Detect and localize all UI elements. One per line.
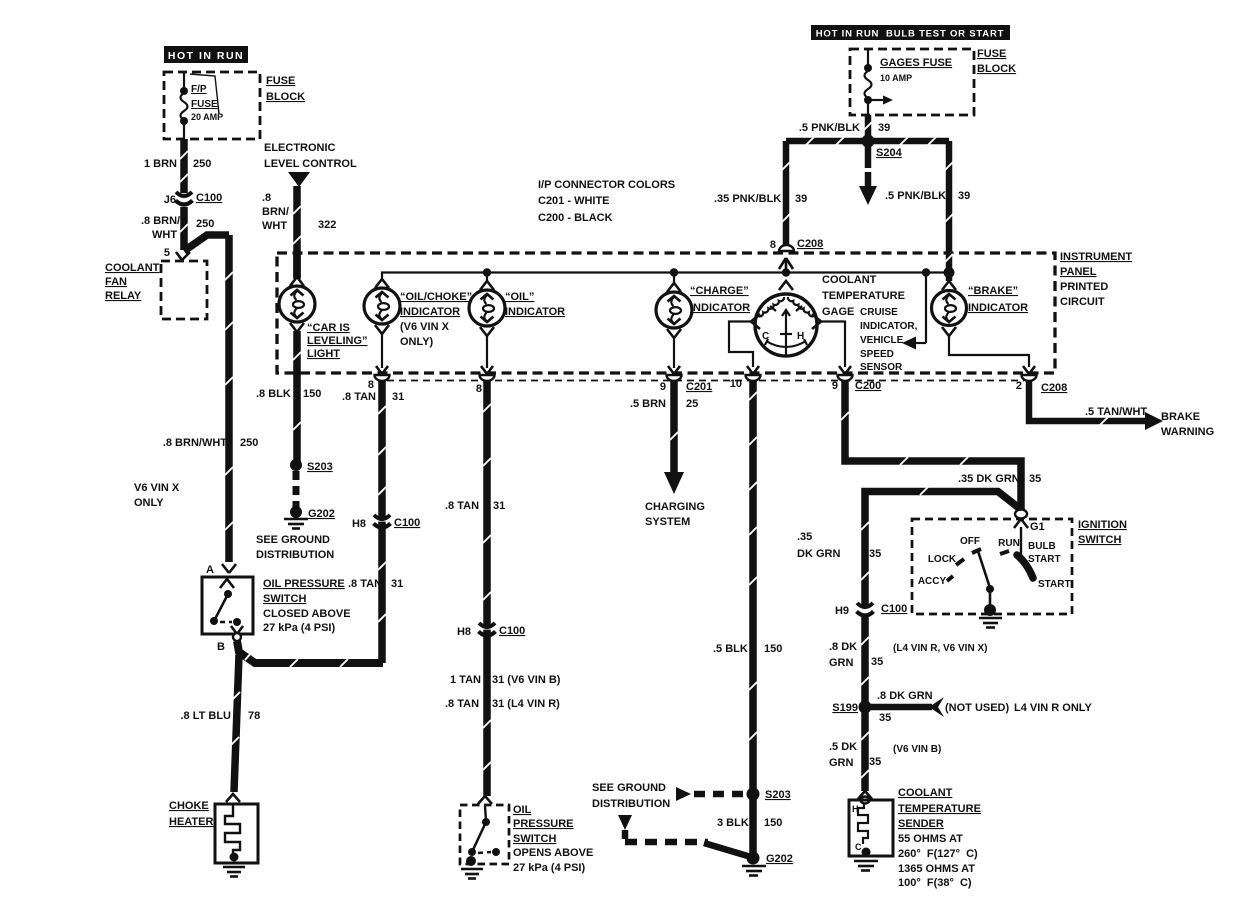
svg-text:3 BLK: 3 BLK (717, 817, 749, 829)
svg-text:ONLY): ONLY) (400, 336, 434, 348)
svg-text:250: 250 (196, 218, 214, 230)
svg-text:PANEL: PANEL (1060, 266, 1097, 278)
svg-text:BLOCK: BLOCK (977, 63, 1016, 75)
svg-text:H: H (797, 331, 804, 342)
svg-text:VEHICLE: VEHICLE (860, 335, 904, 346)
wire fuse2 to S204 : .5 PNK/BLK 39 (799, 115, 890, 139)
svg-text:B: B (217, 641, 225, 653)
svg-text:L4 VIN R ONLY: L4 VIN R ONLY (1014, 702, 1092, 714)
svg-text:C100: C100 (881, 603, 907, 615)
svg-text:COOLANT: COOLANT (105, 262, 160, 274)
gage right wire to pin 9 C200 (821, 322, 881, 460)
label FUSE BLOCK (left) (266, 75, 305, 103)
svg-text:31: 31 (391, 578, 403, 590)
svg-text:100° F(38° C): 100° F(38° C) (898, 877, 972, 889)
note V6 VIN X ONLY (134, 482, 180, 509)
svg-text:DISTRIBUTION: DISTRIBUTION (592, 798, 670, 810)
svg-text:H8: H8 (352, 518, 366, 530)
svg-text:GAGE: GAGE (822, 306, 854, 318)
arrow to charging system (645, 472, 705, 528)
svg-text:SWITCH: SWITCH (513, 833, 556, 845)
svg-text:2: 2 (1016, 380, 1022, 392)
svg-text:START: START (1028, 554, 1061, 565)
svg-text:BRAKE: BRAKE (1161, 411, 1200, 423)
wire .35 PNK/BLK 39 to pin 8 C208 (714, 141, 807, 249)
svg-text:G202: G202 (308, 508, 335, 520)
svg-text:DK GRN: DK GRN (797, 548, 840, 560)
svg-text:.8 TAN: .8 TAN (342, 391, 376, 403)
svg-text:27 kPa (4 PSI): 27 kPa (4 PSI) (513, 862, 585, 874)
svg-text:INDICATOR: INDICATOR (968, 302, 1028, 314)
svg-text:HOT IN RUN: HOT IN RUN (168, 50, 244, 62)
svg-text:35: 35 (879, 712, 891, 724)
pin 8 (oil) (445, 366, 505, 796)
svg-text:BLOCK: BLOCK (266, 91, 305, 103)
fuse block 1 (dashed) (164, 72, 260, 139)
instrument panel printed circuit (dashed box) (277, 251, 1132, 373)
wire .5 TAN/WHT to brake warning (1029, 406, 1214, 438)
svg-text:FUSE: FUSE (191, 99, 218, 110)
printed circuit feed bus wire (382, 267, 955, 278)
svg-text:.5 TAN/WHT: .5 TAN/WHT (1085, 406, 1147, 418)
svg-text:25: 25 (686, 398, 698, 410)
indicator bulb CHARGE (656, 272, 750, 368)
pin 9 C201 (630, 366, 712, 474)
connector H8 C100 (oil/choke wire) (348, 515, 420, 590)
feed label HOT IN RUN (164, 46, 248, 63)
svg-text:I/P CONNECTOR COLORS: I/P CONNECTOR COLORS (538, 179, 675, 191)
indicator bulb OIL/CHOKE (364, 279, 472, 368)
ground G202 (lower) (742, 852, 793, 876)
svg-text:150: 150 (303, 388, 321, 400)
svg-text:(L4 VIN R, V6 VIN X): (L4 VIN R, V6 VIN X) (893, 643, 987, 654)
stub to cruise indicator / VSS (860, 273, 926, 374)
svg-text:.35 DK GRN: .35 DK GRN (958, 473, 1020, 485)
svg-text:20 AMP: 20 AMP (191, 112, 223, 122)
svg-text:1 BRN: 1 BRN (144, 158, 177, 170)
svg-text:.5 PNK/BLK: .5 PNK/BLK (885, 190, 946, 202)
electronic level control source (264, 142, 357, 187)
svg-text:39: 39 (795, 193, 807, 205)
svg-text:8: 8 (476, 383, 482, 395)
svg-text:S203: S203 (765, 789, 791, 801)
svg-text:150: 150 (764, 643, 782, 655)
svg-text:GRN: GRN (829, 757, 854, 769)
svg-text:CIRCUIT: CIRCUIT (1060, 296, 1105, 308)
svg-text:.8 BRN/WHT: .8 BRN/WHT (163, 437, 227, 449)
svg-text:SPEED: SPEED (860, 349, 894, 360)
svg-text:INDICATOR: INDICATOR (505, 306, 565, 318)
svg-text:C200 - BLACK: C200 - BLACK (538, 212, 613, 224)
svg-text:10: 10 (730, 378, 742, 390)
svg-text:10 AMP: 10 AMP (880, 73, 912, 83)
wire brake output to pin 2 C208 (949, 336, 1067, 418)
svg-text:G202: G202 (766, 853, 793, 865)
svg-text:INSTRUMENT: INSTRUMENT (1060, 251, 1132, 263)
svg-text:“CAR IS: “CAR IS (307, 322, 350, 334)
svg-text:31: 31 (493, 500, 505, 512)
node A (206, 564, 236, 576)
wire fuse1 to J6 : 1 BRN 250 (144, 139, 211, 193)
wire .5 DK GRN 35 to sender (829, 712, 941, 791)
svg-text:260° F(127° C): 260° F(127° C) (898, 848, 978, 860)
svg-text:OIL: OIL (513, 804, 532, 816)
note I/P connector colors (538, 179, 675, 224)
svg-text:LEVEL CONTROL: LEVEL CONTROL (264, 158, 357, 170)
svg-text:35: 35 (871, 656, 883, 668)
gage left wire to pin 10 (713, 322, 782, 792)
svg-text:A: A (206, 564, 214, 576)
wire .8 DK GRN 35 to S199 (829, 617, 883, 702)
svg-text:G1: G1 (1030, 521, 1045, 533)
svg-text:.5 DK: .5 DK (829, 741, 857, 753)
gages fuse 10 AMP (864, 49, 952, 115)
svg-text:J6: J6 (164, 194, 176, 206)
splice S199 with unused branch (832, 690, 1092, 724)
svg-text:322: 322 (318, 219, 336, 231)
svg-text:.8 DK: .8 DK (829, 641, 857, 653)
svg-text:BRN/: BRN/ (262, 206, 289, 218)
indicator bulb CAR IS LEVELING LIGHT (279, 253, 368, 360)
choke heater (169, 794, 258, 877)
wire leveling light output to S203 (256, 331, 321, 466)
svg-text:250: 250 (193, 158, 211, 170)
svg-text:(V6 VIN X: (V6 VIN X (400, 321, 450, 333)
svg-text:SYSTEM: SYSTEM (645, 516, 690, 528)
svg-text:C201 - WHITE: C201 - WHITE (538, 195, 610, 207)
svg-text:C201: C201 (686, 381, 712, 393)
splice S204 (862, 135, 903, 160)
svg-text:INDICATOR: INDICATOR (400, 306, 460, 318)
svg-text:.8 TAN: .8 TAN (445, 698, 479, 710)
svg-text:WHT: WHT (152, 229, 177, 241)
svg-text:TEMPERATURE: TEMPERATURE (898, 803, 981, 815)
svg-text:LIGHT: LIGHT (307, 348, 340, 360)
svg-text:CRUISE: CRUISE (860, 307, 898, 318)
svg-text:H8: H8 (457, 626, 471, 638)
svg-text:35: 35 (869, 756, 881, 768)
svg-text:DISTRIBUTION: DISTRIBUTION (256, 549, 334, 561)
svg-text:SWITCH: SWITCH (1078, 534, 1121, 546)
note SEE GROUND DISTRIBUTION (left) (256, 534, 334, 561)
svg-text:.8 TAN: .8 TAN (348, 578, 382, 590)
svg-text:31 (V6 VIN B): 31 (V6 VIN B) (492, 674, 561, 686)
note SEE GROUND DISTRIBUTION (lower) with arrows (592, 782, 751, 857)
svg-text:78: 78 (248, 710, 260, 722)
svg-text:1 TAN: 1 TAN (450, 674, 481, 686)
svg-text:F/P: F/P (191, 84, 207, 95)
svg-text:55 OHMS AT: 55 OHMS AT (898, 833, 963, 845)
fuse F/P FUSE 20 AMP (180, 72, 223, 139)
svg-text:INDICATOR,: INDICATOR, (860, 321, 918, 332)
wire branch node5 to right riser (184, 235, 229, 251)
wire J6 to node 5 : .8 BRN/WHT 250 (141, 207, 214, 250)
connector J6 C100 (164, 192, 223, 206)
svg-text:BULB: BULB (1028, 541, 1056, 552)
svg-text:SEE GROUND: SEE GROUND (256, 534, 330, 546)
ignition switch (dashed box) (912, 519, 1127, 614)
svg-text:FUSE: FUSE (266, 75, 295, 87)
svg-text:35: 35 (869, 548, 881, 560)
svg-text:C200: C200 (855, 380, 881, 392)
dashed wire S203 to G202 (293, 471, 300, 509)
indicator bulb OIL (469, 272, 565, 368)
node 5 terminal into relay (164, 247, 190, 260)
svg-text:8: 8 (770, 239, 776, 251)
svg-text:WARNING: WARNING (1161, 426, 1214, 438)
svg-text:ELECTRONIC: ELECTRONIC (264, 142, 336, 154)
svg-text:S203: S203 (307, 461, 333, 473)
svg-text:CHOKE: CHOKE (169, 800, 209, 812)
svg-text:.8 TAN: .8 TAN (445, 500, 479, 512)
svg-text:C100: C100 (499, 625, 525, 637)
connector H8 C100 (oil wire) (445, 623, 561, 710)
wire ELC down .8 BRN/WHT 322 (262, 186, 336, 278)
wire 9 C200 riser to ignition switch G1 : .35 DK GRN 35 (845, 457, 1041, 510)
svg-text:“BRAKE”: “BRAKE” (968, 285, 1018, 297)
ignition switch interior (918, 527, 1071, 628)
svg-text:.35 PNK/BLK: .35 PNK/BLK (714, 193, 781, 205)
svg-text:31 (L4 VIN R): 31 (L4 VIN R) (492, 698, 560, 710)
svg-text:(NOT USED): (NOT USED) (945, 702, 1010, 714)
svg-text:.5 BLK: .5 BLK (713, 643, 748, 655)
svg-text:WHT: WHT (262, 220, 287, 232)
splice S203 (290, 459, 333, 473)
wire riser .8 BRN/WHT 250 down to A (163, 235, 259, 562)
ground G202 (284, 506, 335, 529)
svg-text:(V6 VIN B): (V6 VIN B) (893, 744, 941, 755)
connector H9 C100 (835, 603, 907, 617)
fuse block 2 (dashed) (850, 48, 1016, 115)
svg-text:V6 VIN X: V6 VIN X (134, 482, 180, 494)
wire 3 BLK 150 to G202 (717, 794, 782, 854)
svg-text:LEVELING”: LEVELING” (307, 335, 368, 347)
svg-text:OPENS ABOVE: OPENS ABOVE (513, 847, 593, 859)
oil pressure switch 2 (opens above 27 kPa) (460, 796, 593, 879)
svg-text:C208: C208 (1041, 382, 1067, 394)
wire S204 horizontal rail (786, 137, 949, 145)
svg-text:C100: C100 (394, 517, 420, 529)
svg-text:C: C (855, 842, 862, 852)
coolant temperature sender (849, 787, 981, 889)
svg-text:.8: .8 (262, 192, 271, 204)
svg-text:RUN: RUN (998, 538, 1020, 549)
wire node B junction horizontal to oil/choke riser (237, 641, 383, 667)
svg-text:H9: H9 (835, 605, 849, 617)
svg-text:COOLANT: COOLANT (822, 274, 877, 286)
terminal G1 (1014, 510, 1045, 534)
svg-text:1365 OHMS AT: 1365 OHMS AT (898, 863, 975, 875)
svg-text:CHARGING: CHARGING (645, 501, 705, 513)
svg-text:SWITCH: SWITCH (263, 593, 306, 605)
splice S203 (lower) (747, 788, 791, 802)
svg-text:C: C (762, 331, 769, 342)
svg-text:.8 BLK: .8 BLK (256, 388, 291, 400)
svg-text:C208: C208 (797, 238, 823, 250)
svg-text:INDICATOR: INDICATOR (690, 302, 750, 314)
svg-text:RELAY: RELAY (105, 290, 142, 302)
svg-text:ACCY: ACCY (918, 576, 947, 587)
pin 8 (oil/choke) (342, 366, 404, 663)
svg-text:TEMPERATURE: TEMPERATURE (822, 290, 905, 302)
svg-text:.8 BRN/: .8 BRN/ (141, 215, 180, 227)
svg-text:.35: .35 (797, 531, 812, 543)
svg-text:PRINTED: PRINTED (1060, 281, 1108, 293)
svg-text:9: 9 (660, 381, 666, 393)
svg-text:.8 DK GRN: .8 DK GRN (877, 690, 933, 702)
svg-text:ONLY: ONLY (134, 497, 164, 509)
svg-text:LOCK: LOCK (928, 554, 957, 565)
feed label HOT IN RUN, BULB TEST OR START (811, 25, 1010, 40)
svg-text:39: 39 (878, 122, 890, 134)
coolant temperature gage (751, 274, 905, 356)
svg-text:250: 250 (240, 437, 258, 449)
svg-text:“OIL”: “OIL” (505, 291, 534, 303)
svg-text:SENSOR: SENSOR (860, 362, 903, 373)
svg-text:8: 8 (368, 379, 374, 391)
svg-text:“OIL/CHOKE”: “OIL/CHOKE” (400, 291, 472, 303)
svg-text:SENDER: SENDER (898, 818, 944, 830)
branch wire to temperature sender chain (797, 487, 1019, 605)
svg-text:PRESSURE: PRESSURE (513, 818, 574, 830)
svg-text:S199: S199 (832, 702, 858, 714)
svg-text:.5 PNK/BLK: .5 PNK/BLK (799, 122, 860, 134)
svg-text:GRN: GRN (829, 657, 854, 669)
svg-text:.8 LT BLU: .8 LT BLU (180, 710, 231, 722)
svg-text:5: 5 (164, 247, 170, 259)
pin 8 C208 into panel (770, 238, 823, 273)
svg-text:.5 BRN: .5 BRN (630, 398, 666, 410)
svg-text:CLOSED ABOVE: CLOSED ABOVE (263, 608, 351, 620)
svg-text:S204: S204 (876, 147, 903, 159)
connector C200 dashed line under panel (387, 380, 1024, 382)
svg-text:COOLANT: COOLANT (898, 787, 953, 799)
svg-text:HOT IN RUN BULB TEST OR START: HOT IN RUN BULB TEST OR START (816, 29, 1004, 40)
svg-text:OFF: OFF (960, 536, 980, 547)
svg-text:START: START (1038, 579, 1071, 590)
oil pressure switch 1 (closed above 27 kPa) (202, 577, 351, 653)
svg-text:9: 9 (832, 380, 838, 392)
note (L4 VIN R, V6 VIN X) (893, 643, 987, 654)
svg-text:C100: C100 (196, 192, 222, 204)
svg-text:IGNITION: IGNITION (1078, 519, 1127, 531)
svg-text:GAGES FUSE: GAGES FUSE (880, 57, 952, 69)
svg-text:150: 150 (764, 817, 782, 829)
svg-text:FAN: FAN (105, 276, 127, 288)
svg-text:HEATER: HEATER (169, 816, 213, 828)
wire .5 PNK/BLK 39 to brake bulb (885, 141, 970, 281)
svg-text:39: 39 (958, 190, 970, 202)
svg-text:27 kPa (4 PSI): 27 kPa (4 PSI) (263, 622, 335, 634)
svg-text:SEE GROUND: SEE GROUND (592, 782, 666, 794)
svg-text:31: 31 (392, 391, 404, 403)
svg-text:FUSE: FUSE (977, 48, 1006, 60)
svg-text:“CHARGE”: “CHARGE” (690, 285, 749, 297)
svg-text:35: 35 (1029, 473, 1041, 485)
wire node B down .8 LT BLU 78 to choke heater (180, 655, 260, 792)
indicator bulb BRAKE (932, 281, 1029, 336)
stub and arrow below S204 (859, 144, 877, 205)
coolant fan relay (dashed box) (105, 261, 207, 319)
svg-text:OIL PRESSURE: OIL PRESSURE (263, 578, 345, 590)
